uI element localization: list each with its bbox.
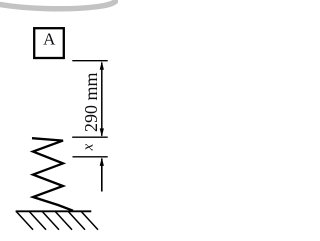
svg-text:290 mm: 290 mm: [81, 72, 101, 132]
ground hatch 2: [30, 212, 47, 230]
tick line at compressed level: [73, 156, 108, 158]
dimension line 290mm vertical: [101, 63, 103, 136]
ground hatch 4: [56, 212, 73, 230]
ground hatch 1: [17, 212, 34, 230]
ground line: [16, 210, 92, 212]
arrowhead up at top of 290mm dimension: [100, 61, 104, 70]
ground hatch 3: [43, 212, 60, 230]
svg-text:x: x: [80, 143, 96, 151]
spring: [32, 138, 73, 211]
arrowhead down at bottom of 290mm dimension: [100, 128, 104, 137]
tick line at spring top level: [72, 136, 108, 138]
svg-text:A: A: [43, 30, 56, 49]
block A box: [34, 28, 64, 58]
page edge gray curve: [0, 0, 118, 9]
arrowhead up for x dimension: [100, 157, 104, 166]
extension line top (box bottom level): [72, 60, 107, 62]
ground hatch 5: [69, 212, 86, 230]
x dimension leader line below with up arrow: [101, 159, 103, 192]
ground hatch 6: [82, 212, 99, 230]
